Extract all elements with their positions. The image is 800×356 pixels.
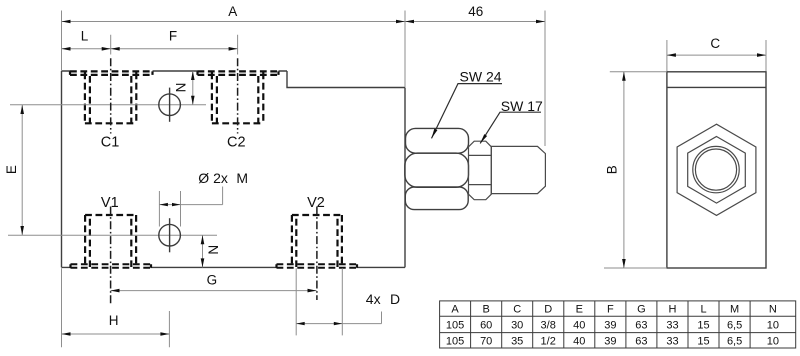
svg-text:70: 70 — [480, 336, 492, 348]
svg-text:N: N — [173, 83, 188, 93]
recess groove top around C2 — [198, 71, 279, 75]
side view thread circle inner — [695, 149, 736, 190]
svg-text:10: 10 — [767, 336, 779, 348]
svg-text:C2: C2 — [227, 134, 246, 150]
dimension N upper — [192, 71, 194, 105]
svg-text:N: N — [206, 245, 221, 255]
dimension C — [667, 40, 766, 71]
dimension L — [62, 35, 111, 55]
recess groove bottom around V2 — [277, 264, 358, 268]
dimension F — [111, 35, 238, 55]
side view block outline — [667, 72, 766, 268]
side view hex SW24 outer — [677, 124, 756, 215]
svg-text:N: N — [769, 304, 777, 316]
svg-text:63: 63 — [635, 336, 647, 348]
mounting hole M upper — [159, 94, 181, 116]
svg-text:B: B — [483, 304, 490, 316]
centerline C1 — [110, 58, 112, 133]
svg-text:G: G — [637, 304, 646, 316]
side view step edge — [667, 86, 766, 88]
svg-text:F: F — [607, 304, 614, 316]
svg-text:C: C — [710, 36, 720, 51]
svg-text:A: A — [228, 4, 237, 19]
svg-text:46: 46 — [468, 4, 483, 19]
svg-text:6,5: 6,5 — [727, 336, 742, 348]
port V2 hidden hole — [292, 215, 342, 267]
svg-text:V2: V2 — [307, 195, 325, 211]
svg-text:35: 35 — [511, 336, 523, 348]
svg-text:40: 40 — [573, 320, 585, 332]
table header row — [451, 304, 776, 316]
dimension dia 2x M — [159, 187, 222, 227]
svg-text:L: L — [700, 304, 706, 316]
table row 2 — [446, 336, 779, 348]
recess groove bottom around V1 — [71, 264, 152, 268]
port C1 hidden hole — [85, 72, 136, 123]
threaded stud — [491, 146, 545, 193]
table row 1 — [446, 320, 779, 332]
svg-text:L: L — [81, 28, 89, 43]
svg-text:10: 10 — [767, 320, 779, 332]
svg-text:M: M — [730, 304, 739, 316]
svg-text:1/2: 1/2 — [541, 336, 556, 348]
svg-text:A: A — [451, 304, 459, 316]
centerline C2 — [237, 58, 239, 133]
recess groove top around C1 — [70, 71, 153, 75]
svg-text:3/8: 3/8 — [541, 320, 556, 332]
dimension B — [604, 72, 667, 268]
svg-text:Ø 2x: Ø 2x — [198, 170, 228, 186]
svg-text:39: 39 — [604, 336, 616, 348]
svg-text:105: 105 — [446, 320, 464, 332]
block outline front view — [62, 71, 406, 267]
svg-text:F: F — [169, 28, 177, 43]
svg-text:60: 60 — [480, 320, 492, 332]
fitting SW24 hex band middle — [405, 153, 469, 187]
svg-text:E: E — [576, 304, 583, 316]
dimension 46 — [405, 11, 545, 147]
dimension table frame — [440, 301, 796, 348]
port V1 hidden hole — [85, 215, 136, 267]
svg-text:D: D — [390, 291, 400, 307]
svg-text:63: 63 — [635, 320, 647, 332]
svg-text:33: 33 — [666, 320, 678, 332]
mounting hole M lower — [159, 224, 181, 246]
fitting SW24 hex band bottom — [405, 187, 468, 210]
svg-text:C: C — [513, 304, 521, 316]
svg-text:H: H — [669, 304, 677, 316]
svg-text:105: 105 — [446, 336, 464, 348]
fitting SW24 hex band top — [406, 128, 469, 153]
dimension H — [62, 268, 170, 347]
svg-text:G: G — [207, 272, 218, 287]
side view hex SW17 inner — [688, 137, 746, 204]
side view thread circle outer — [693, 146, 739, 192]
svg-text:M: M — [236, 170, 248, 186]
svg-text:39: 39 — [604, 320, 616, 332]
svg-text:30: 30 — [511, 320, 523, 332]
dimension 4x D — [296, 268, 381, 335]
svg-text:B: B — [604, 165, 619, 174]
centerline V2 — [316, 207, 318, 301]
dimension N lower — [202, 235, 204, 267]
svg-text:D: D — [544, 304, 552, 316]
svg-text:40: 40 — [573, 336, 585, 348]
centerline horizontal upper ports — [10, 104, 206, 106]
dimension A — [62, 11, 406, 88]
centerline V1 — [110, 207, 112, 306]
dimension G — [111, 290, 317, 292]
svg-text:6,5: 6,5 — [727, 320, 742, 332]
port C2 hidden hole — [212, 72, 263, 123]
svg-text:SW 24: SW 24 — [460, 68, 502, 84]
svg-text:4x: 4x — [366, 291, 381, 307]
svg-text:C1: C1 — [101, 134, 120, 150]
dimension E — [21, 105, 23, 235]
svg-text:H: H — [109, 313, 119, 328]
svg-text:SW 17: SW 17 — [501, 98, 543, 114]
svg-text:15: 15 — [697, 320, 709, 332]
centerline horizontal lower ports — [8, 234, 217, 236]
svg-text:15: 15 — [697, 336, 709, 348]
svg-text:33: 33 — [666, 336, 678, 348]
fitting SW17 hex — [469, 141, 492, 200]
svg-text:V1: V1 — [101, 195, 119, 211]
svg-text:E: E — [4, 165, 19, 174]
